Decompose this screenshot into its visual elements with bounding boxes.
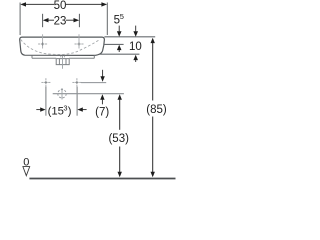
svg-text:23: 23 xyxy=(54,15,67,27)
svg-text:(85): (85) xyxy=(146,104,167,116)
svg-text:): ) xyxy=(68,105,72,117)
svg-text:(7): (7) xyxy=(95,106,109,118)
svg-text:5: 5 xyxy=(120,12,124,21)
svg-text:50: 50 xyxy=(54,0,67,12)
svg-text:10: 10 xyxy=(129,41,142,53)
svg-text:(53): (53) xyxy=(108,133,129,145)
svg-text:(15: (15 xyxy=(48,105,64,117)
